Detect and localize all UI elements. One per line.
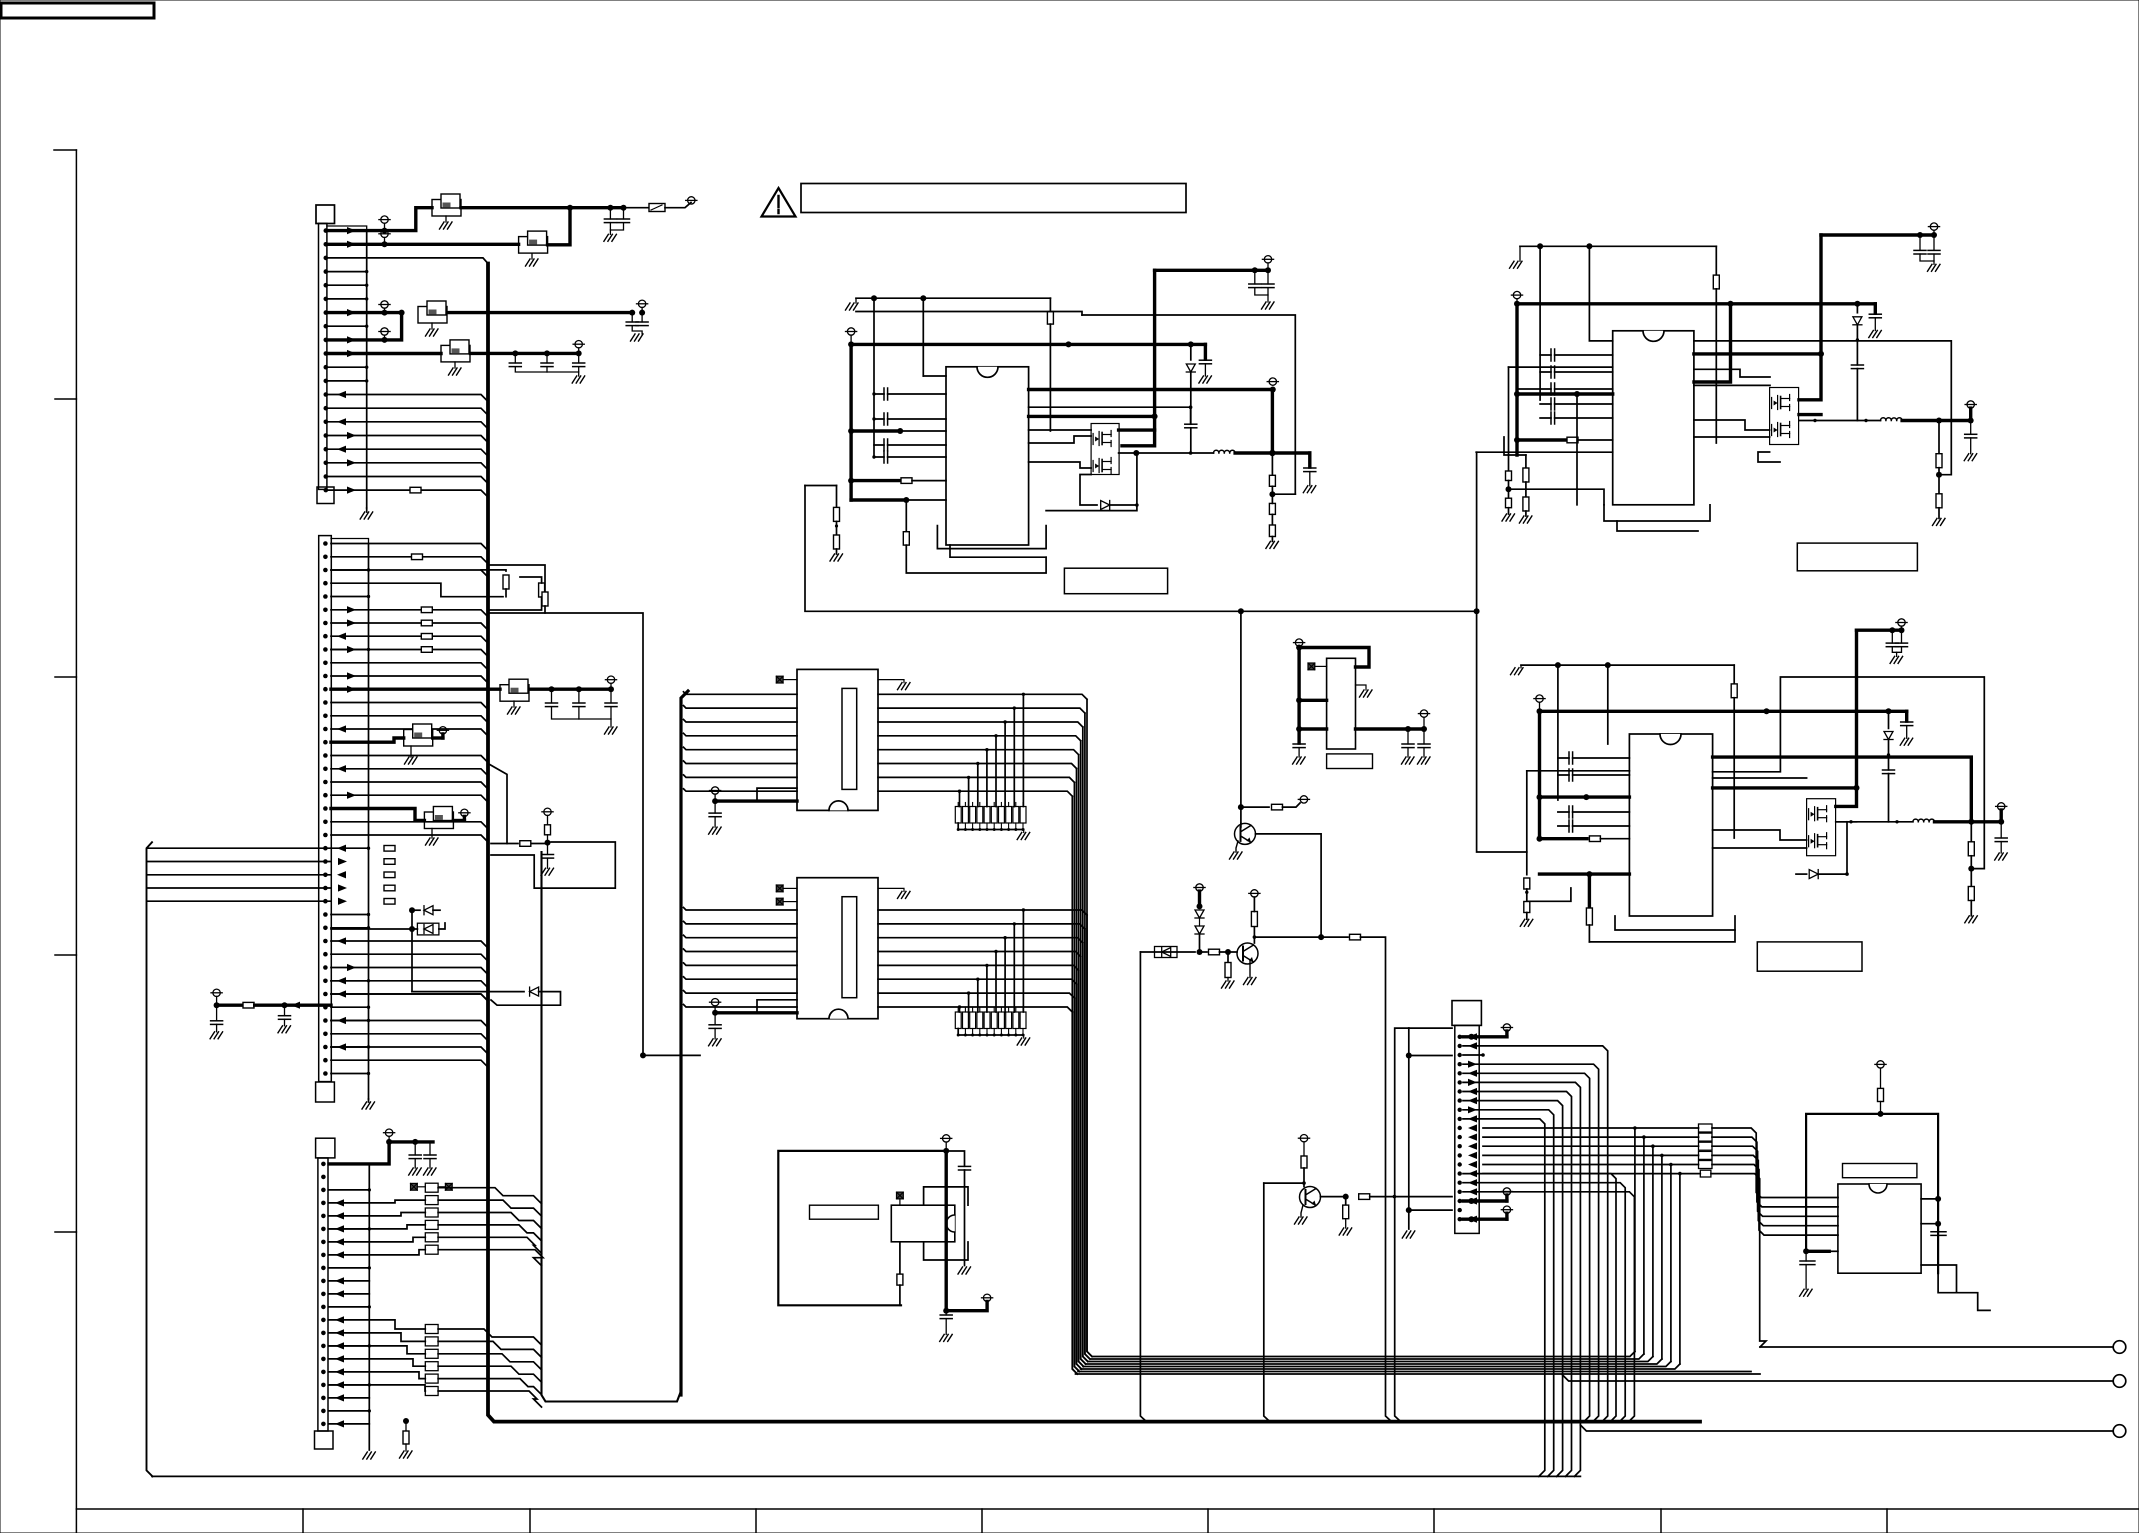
IC2 thick row 354 bbox=[1694, 352, 1821, 355]
power terminal Q9 bbox=[1300, 1135, 1307, 1142]
box vertical x1264 Q3 base bbox=[1264, 1183, 1270, 1422]
bead FB2 ground bbox=[531, 254, 533, 260]
IC4 top pin box bbox=[924, 1187, 968, 1205]
wire CN1 pin7 thick bbox=[327, 311, 402, 314]
wire CN2 row11 thick bead net bbox=[331, 688, 500, 691]
driver decoupling cap bbox=[714, 1013, 716, 1025]
resistor R27 bbox=[1200, 951, 1208, 953]
smps3 zener D8 bbox=[1888, 711, 1890, 728]
strip drop 0 bbox=[1022, 694, 1024, 806]
bundle vertical 5 bbox=[1077, 769, 1082, 1370]
IC3 power controller bbox=[1629, 734, 1712, 916]
strip drop 1 bbox=[1013, 924, 1015, 1012]
IC5 right stubs bbox=[1921, 1198, 1938, 1200]
U3 out cap B bbox=[1423, 729, 1425, 744]
strip drop 2 bbox=[1004, 938, 1006, 1012]
connector CN1 end square bbox=[317, 487, 334, 504]
bundle vertical 5 bbox=[1077, 984, 1082, 1369]
row extension 5 bbox=[978, 764, 1077, 769]
smps3 resistor R20 bbox=[1733, 665, 1735, 684]
IC1 pin row y376 bbox=[923, 375, 946, 377]
power terminal FB6 bbox=[439, 727, 446, 734]
inductor L1 bbox=[1214, 450, 1236, 453]
resistor RN1a bbox=[503, 575, 509, 589]
resistor R9 bbox=[836, 486, 838, 508]
smps1 output cap branch bbox=[1308, 453, 1311, 468]
smps1 thick rail +B bbox=[851, 343, 1205, 346]
driver feedback jog bbox=[757, 788, 797, 801]
smps3 left thick vertical bbox=[1538, 711, 1541, 838]
IC3 thick row 757 output link bbox=[1713, 757, 1972, 822]
CN4 rail stub y1210 bbox=[1409, 1209, 1452, 1211]
smps1 thick left vertical bbox=[849, 344, 852, 500]
IC5 outer thick box bbox=[1806, 1114, 1938, 1273]
fuse F1 bbox=[649, 204, 665, 212]
band A ascent 4 bbox=[1670, 1165, 1672, 1362]
smps3 thick row 874 bbox=[1540, 872, 1630, 875]
left frame tick y=399 bbox=[55, 398, 76, 400]
power terminal net7 bbox=[638, 300, 645, 307]
connector CN3 body bbox=[318, 1158, 328, 1431]
IC3 thick row 788 bbox=[1713, 786, 1857, 789]
IC5 bottom wires bbox=[1921, 1265, 1990, 1310]
strip drop 5 bbox=[977, 979, 979, 1012]
left bus vertical bbox=[147, 842, 153, 1476]
strip drop 5 bbox=[977, 764, 979, 807]
bundle vertical 6 bbox=[1074, 998, 1079, 1371]
connector CN3 header square bbox=[316, 1138, 335, 1158]
Q7 emitter ground bbox=[1236, 841, 1238, 852]
strip drop 7 bbox=[959, 791, 961, 806]
IC3 row 778 bbox=[1713, 777, 1807, 779]
power terminal zener bbox=[1196, 884, 1203, 891]
resistor array RA1 bbox=[425, 1183, 438, 1192]
connector CN2 body bbox=[319, 536, 332, 1082]
resistor strip bbox=[955, 807, 961, 824]
wire FB7 out bbox=[453, 819, 464, 822]
smps3 mid cap C25 bbox=[1888, 755, 1890, 770]
resistor R23 bbox=[1968, 887, 1974, 901]
power terminal smps3 out bbox=[1998, 803, 2005, 810]
vertical trunk bus B thick bbox=[681, 691, 688, 1395]
smps3 thick rail bbox=[1540, 710, 1907, 713]
strip drop 6 bbox=[968, 993, 970, 1012]
smps2 output row bbox=[1799, 420, 1881, 422]
driver bus rows left bbox=[684, 692, 798, 695]
smps2 vertical x1540 bbox=[1539, 246, 1541, 400]
resistor R25 bbox=[1524, 902, 1530, 913]
power terminal pin2 bbox=[381, 230, 388, 237]
driver block inner slot bbox=[842, 688, 857, 789]
resistor R34 pulldown bbox=[1345, 1197, 1347, 1206]
CN2 left-entry rows from bus bbox=[147, 847, 331, 849]
CN4 fan descents to lower bus bbox=[1463, 1082, 1580, 1476]
IC4 right cap branch bbox=[946, 1151, 964, 1166]
U3 label box bbox=[1327, 754, 1373, 769]
smps1 vertical x874 bbox=[873, 298, 875, 457]
wire CN1 pin1 +B thick bbox=[327, 208, 432, 231]
smps1 thick row 389 bbox=[1029, 388, 1273, 391]
driver ground right bbox=[878, 680, 904, 683]
connector CN2 pins bbox=[323, 541, 328, 546]
connector CN4 header square bbox=[1452, 1001, 1481, 1026]
smps1 label box bbox=[1064, 568, 1167, 594]
RP1 output wrap bundle to IC5 bbox=[1712, 1128, 1838, 1198]
base line left boxed diode D11 bbox=[1140, 951, 1195, 953]
smps2 resistor R14 bbox=[1715, 246, 1717, 275]
smps1 top link y312 bbox=[856, 312, 1082, 316]
row extension 4 bbox=[987, 750, 1079, 755]
wire CN1 pin2 thick bbox=[327, 243, 519, 246]
terminal circle ring2 bbox=[2113, 1375, 2126, 1388]
smps3 fb divider R22 bbox=[1970, 822, 1972, 842]
bundle vertical 6 bbox=[1074, 782, 1079, 1371]
divider on xB bbox=[1508, 367, 1510, 471]
bottom bus band A bbox=[1093, 1352, 1635, 1357]
bottom frame border bbox=[76, 1508, 2139, 1510]
bottom frame tick x=982 bbox=[981, 1509, 983, 1533]
vertical trunk bus A bbox=[488, 264, 1700, 1422]
transistor Q9 bbox=[1300, 1187, 1321, 1208]
smps3 left thick row 797 bbox=[1540, 795, 1587, 798]
row extension 7 bbox=[960, 791, 1073, 796]
x-marker driver pin 0 bbox=[776, 885, 783, 892]
resistor R0 on CN1 pin20 wire bbox=[410, 487, 421, 493]
C3 C4 ground bbox=[632, 326, 642, 334]
smps1 cap C16 bbox=[1185, 425, 1197, 427]
diode D1/D2 select vertical bbox=[411, 910, 413, 991]
smps3 feedback line right bbox=[1713, 677, 1985, 869]
bottom frame tick x=530 bbox=[529, 1509, 531, 1533]
wire CN1 pin9 thick bbox=[327, 313, 402, 340]
bead FB6 ground bbox=[410, 746, 412, 757]
capacitor C13 bbox=[547, 843, 549, 855]
U3 input cap bbox=[1297, 729, 1300, 744]
smps2 freewheel diode D7 bbox=[1758, 452, 1780, 462]
smps3 ground top-left bbox=[1511, 668, 1524, 675]
strip drop 3 bbox=[995, 736, 997, 807]
CN2 lower rows to trunk bbox=[331, 981, 488, 988]
power terminal pin9 bbox=[381, 328, 388, 335]
smps2 mos mid thick bbox=[1799, 413, 1821, 416]
MOSFET block Q3Q4 bbox=[1770, 388, 1799, 445]
power terminal U3 out bbox=[1420, 710, 1427, 717]
smps1 rail end cap bbox=[1204, 344, 1207, 360]
capacitor C8 bbox=[551, 689, 553, 703]
capacitor C3 bbox=[631, 313, 633, 322]
inductor L3 bbox=[1913, 819, 1935, 822]
strip drop 4 bbox=[986, 965, 988, 1012]
resistor R5 under trunk corner bbox=[403, 1418, 409, 1424]
power terminal after fuse bbox=[688, 197, 695, 204]
ferrite bead FB5 bbox=[500, 685, 529, 702]
IC5 left thick stub bbox=[1806, 1250, 1829, 1253]
wire FB4 output thick bbox=[471, 352, 579, 355]
smps3 resistor row R21 bbox=[1540, 837, 1588, 840]
bundle vertical 7 bbox=[1072, 1012, 1077, 1374]
C8-C10 ground join bbox=[552, 707, 612, 719]
ferrite bead FB2 bbox=[519, 237, 548, 254]
row extension 3 bbox=[996, 736, 1081, 741]
strip ground bbox=[1023, 1035, 1025, 1038]
wire CN2 row20 thick bead FB7 bbox=[331, 809, 424, 821]
bundle vertical 0 bbox=[1087, 915, 1092, 1357]
driver block inner slot bbox=[842, 897, 857, 998]
feedback vertical x1508 top link bbox=[1509, 366, 1613, 368]
smps2 left thick row 394 bbox=[1517, 392, 1613, 395]
bead FB7 ground bbox=[431, 829, 433, 839]
wire fuse to power bbox=[665, 203, 691, 208]
row extension 3 bbox=[996, 952, 1081, 957]
row extension 2 bbox=[1005, 938, 1083, 943]
centre box outline thick bbox=[778, 1151, 946, 1305]
capacitor C12 bbox=[284, 1005, 286, 1016]
bundle vertical 1 bbox=[1085, 929, 1090, 1359]
IC1 power controller bbox=[946, 367, 1029, 545]
Q9 base link bbox=[1264, 1182, 1304, 1184]
left frame border bbox=[75, 150, 77, 1533]
smps3 mos vertical thick bbox=[1836, 630, 1857, 806]
capacitor C10 bbox=[610, 689, 612, 703]
resistor R19 bbox=[1523, 497, 1529, 511]
capacitor C5 bbox=[514, 353, 516, 363]
strip ground bbox=[1023, 830, 1025, 833]
connector CN4 pins bbox=[1458, 1035, 1462, 1039]
pull-up box outline bbox=[491, 842, 615, 888]
band A ascent 3 bbox=[1661, 1155, 1663, 1359]
CN1 data rows to trunk bbox=[327, 395, 488, 402]
smps1 top power group bbox=[1155, 269, 1268, 272]
driver feedback jog bbox=[757, 1000, 797, 1013]
x-marker driver pin 1 bbox=[776, 898, 783, 905]
CN2 ground bus vertical bbox=[368, 544, 370, 1100]
IC1 bottom nested outline bbox=[937, 526, 1046, 549]
strip drop 4 bbox=[986, 750, 988, 807]
CN1 ground bus stubs bbox=[327, 271, 367, 273]
capacitor C15 bbox=[429, 1142, 431, 1155]
wire CN2 row5 arrowed bbox=[331, 610, 488, 617]
CN3 pin1 power net thick bbox=[329, 1142, 433, 1164]
smps3 out cap bbox=[2000, 822, 2002, 838]
bundle vertical 7 bbox=[1072, 796, 1077, 1374]
driver power input bbox=[711, 787, 718, 794]
resistor R17 bbox=[1936, 494, 1942, 508]
vertical x1394 riser bbox=[1395, 1028, 1409, 1422]
CN3 ground bbox=[363, 1452, 376, 1459]
CN3 wires to RA2 bbox=[329, 1320, 425, 1329]
ferrite bead FB3 bbox=[418, 307, 447, 324]
power terminal CN4 pin1 bbox=[1503, 1024, 1510, 1031]
resistor R1 bbox=[243, 1002, 254, 1008]
regulator IC U3 bbox=[1327, 658, 1356, 749]
bottom frame tick x=756 bbox=[755, 1509, 757, 1533]
connector CN4 body bbox=[1455, 1025, 1479, 1233]
diode D3 loop bbox=[412, 991, 524, 993]
IC3 left cap rows bbox=[1558, 757, 1630, 759]
row extension 7 bbox=[960, 1007, 1073, 1012]
U3 output thick bbox=[1299, 727, 1327, 730]
Q9 emitter ground bbox=[1301, 1205, 1303, 1217]
IC2 pin row 341 feedback bbox=[1694, 341, 1951, 475]
strip top stubs bbox=[957, 803, 959, 807]
fb vertical x1295 bbox=[1082, 315, 1295, 494]
driver block body bbox=[797, 878, 878, 1019]
smps3 vertical x1558 bbox=[1557, 665, 1559, 800]
power terminal CN3 bbox=[385, 1129, 392, 1136]
C1 C2 ground join bbox=[609, 223, 611, 235]
power terminal net10 bbox=[575, 341, 582, 348]
CN4 mid power A bbox=[1463, 1199, 1507, 1202]
CN3 ground bus vertical bbox=[368, 1164, 370, 1450]
CN2 ground bus stubs bbox=[331, 569, 369, 571]
smps2 ground top-left bbox=[1510, 261, 1523, 268]
CN1 ground bus vertical bbox=[366, 231, 368, 508]
connector CN2 end square bbox=[316, 1082, 335, 1102]
feedback vertical xA bbox=[1477, 452, 1527, 852]
row extension 4 bbox=[987, 965, 1079, 970]
box left vertical x1140 bbox=[1140, 952, 1146, 1422]
power terminal centre box bbox=[943, 1135, 950, 1142]
RP1 input wires bbox=[1483, 1127, 1699, 1129]
smps3 label box bbox=[1757, 942, 1862, 971]
smps2 left box link bbox=[1504, 437, 1526, 455]
smps2 out cap bbox=[1970, 421, 1972, 435]
IC5 body bbox=[1838, 1184, 1921, 1273]
resistor R32 bbox=[1301, 1156, 1307, 1168]
smps2 top power group bbox=[1821, 233, 1934, 236]
CN1 pin1 top link bbox=[327, 226, 367, 231]
smps1 zener D4 bbox=[1190, 344, 1192, 360]
terminal circle ring3 bbox=[2113, 1425, 2126, 1438]
smps1 bottom return y510 bbox=[1046, 505, 1137, 511]
smps1 mos thick vertical bbox=[1122, 416, 1155, 445]
strip top stubs bbox=[957, 1008, 959, 1012]
bottom frame tick x=1887 bbox=[1886, 1509, 1888, 1533]
smps1 row 407 bbox=[1029, 406, 1191, 408]
resistor R4 net bbox=[488, 565, 545, 592]
smps2 resistor row R15 bbox=[1517, 438, 1565, 441]
band A ascent 2 bbox=[1652, 1146, 1654, 1356]
smps1 mos vertical upper bbox=[1153, 270, 1156, 416]
resistor R10 bbox=[836, 521, 838, 535]
MOSFET block Q5Q6 bbox=[1807, 799, 1836, 856]
wire CN2 rows misc to trunk bbox=[331, 663, 488, 670]
smps3 power terminal bbox=[1536, 695, 1543, 702]
CN2 ground bbox=[368, 1099, 370, 1102]
smps2 feedback chain left bbox=[1476, 451, 1613, 453]
row extension 0 bbox=[1023, 694, 1087, 699]
resistor RN1b bbox=[539, 583, 545, 597]
smps2 thick drop x1730 bbox=[1694, 304, 1731, 382]
terminal circle ring1 bbox=[2113, 1341, 2126, 1354]
CN2 pin1 top link bbox=[331, 539, 369, 544]
power terminal FB5 bbox=[607, 676, 614, 683]
IC5 left cap bbox=[1805, 1251, 1807, 1261]
smps3 rail cap bbox=[1905, 711, 1908, 722]
wire CN2 row1 with resistor bbox=[331, 557, 488, 564]
left frame tick top bbox=[54, 149, 76, 151]
Q7 collector net bbox=[1256, 834, 1322, 937]
resistor R28 pulldown bbox=[1227, 952, 1229, 963]
IC1 cap row 419 bbox=[874, 418, 946, 420]
smps3 vertical x1608 bbox=[1607, 665, 1609, 744]
IC5 label box bbox=[1843, 1164, 1917, 1178]
driver decoupling cap bbox=[714, 801, 716, 813]
power terminal IC4 out bbox=[983, 1294, 990, 1301]
bottom frame tick x=1434 bbox=[1433, 1509, 1435, 1533]
resistor array RA2 bbox=[425, 1325, 438, 1334]
U link to x539 vertical bbox=[542, 852, 682, 1402]
bundle vertical 4 bbox=[1079, 970, 1084, 1366]
diode D1 bbox=[412, 909, 420, 911]
CN4 pin1 power thick bbox=[1463, 1035, 1507, 1038]
wire CN1 pin3 to trunk bbox=[327, 258, 488, 264]
CN4 resistor pack RP1 bbox=[1699, 1124, 1713, 1132]
bead FB3 ground bbox=[431, 323, 433, 329]
CN3 ground bus stubs bbox=[329, 1189, 369, 1191]
x507 feed vertical bbox=[488, 764, 507, 844]
IC1 thick row 500 bbox=[851, 498, 906, 501]
CN3 remaining arrowed stubs bbox=[329, 1280, 369, 1282]
Q9 collector net bbox=[1321, 1196, 1346, 1198]
bottom frame tick x=303 bbox=[302, 1509, 304, 1533]
IC5 right cap bbox=[1937, 1224, 1939, 1232]
RA2 outputs staircase bbox=[438, 1329, 541, 1345]
ferrite bead FB6 bbox=[404, 730, 433, 747]
resistor R13 bbox=[1269, 525, 1275, 537]
IC1 cap row 457 bbox=[874, 456, 946, 458]
Q8 emitter ground bbox=[1249, 961, 1251, 978]
connector CN1 header square bbox=[316, 205, 335, 224]
capacitor C11 bbox=[216, 1005, 218, 1021]
capacitor C9 bbox=[578, 689, 580, 703]
resistor R30 bbox=[1350, 934, 1361, 940]
power terminal smps1 output sense bbox=[1269, 378, 1276, 385]
CN4 lower rows descents bbox=[1463, 1174, 1616, 1422]
smps3 left box link bbox=[1527, 770, 1630, 772]
smps1 thick row 416 to mos vertical bbox=[1029, 415, 1155, 418]
IC4 out cap bbox=[945, 1311, 947, 1315]
smps2 mos vertical thick bbox=[1799, 235, 1821, 400]
driver output rows right bbox=[878, 693, 1023, 695]
capacitor C14 bbox=[414, 1142, 416, 1155]
dual diode pack D2 bbox=[417, 923, 439, 935]
U3 gnd pin bbox=[1356, 685, 1367, 690]
wire RN1b bbox=[505, 589, 507, 597]
bundle vertical 4 bbox=[1079, 755, 1084, 1367]
cap C19 bbox=[1267, 270, 1269, 284]
connector CN3 end square bbox=[315, 1431, 334, 1449]
ferrite bead FB7 bbox=[424, 812, 453, 829]
smps1 output thick bbox=[1235, 451, 1310, 454]
smps3 top rail bbox=[1521, 664, 1734, 666]
bottom frame tick x=1661 bbox=[1660, 1509, 1662, 1533]
cap C24 bbox=[1901, 630, 1903, 643]
IC4 bottom pin box bbox=[924, 1242, 968, 1260]
wire CN2 row0 to trunk bbox=[331, 544, 488, 551]
smps2 thick rail bbox=[1517, 302, 1875, 305]
resistor R18 bbox=[1523, 468, 1529, 482]
smps2 top rail bbox=[1520, 245, 1716, 247]
smps1 power terminal bbox=[847, 328, 854, 335]
RA1 outputs staircase bbox=[438, 1188, 541, 1204]
smps2 power terminal bbox=[1513, 291, 1520, 298]
terminal ring3 wire bbox=[1580, 1425, 2113, 1431]
row extension 1 bbox=[1014, 708, 1085, 713]
inductor L2 bbox=[1881, 418, 1903, 421]
resistor R12 bbox=[1269, 503, 1275, 514]
smps2 fb divider resistors left bbox=[1525, 455, 1527, 468]
